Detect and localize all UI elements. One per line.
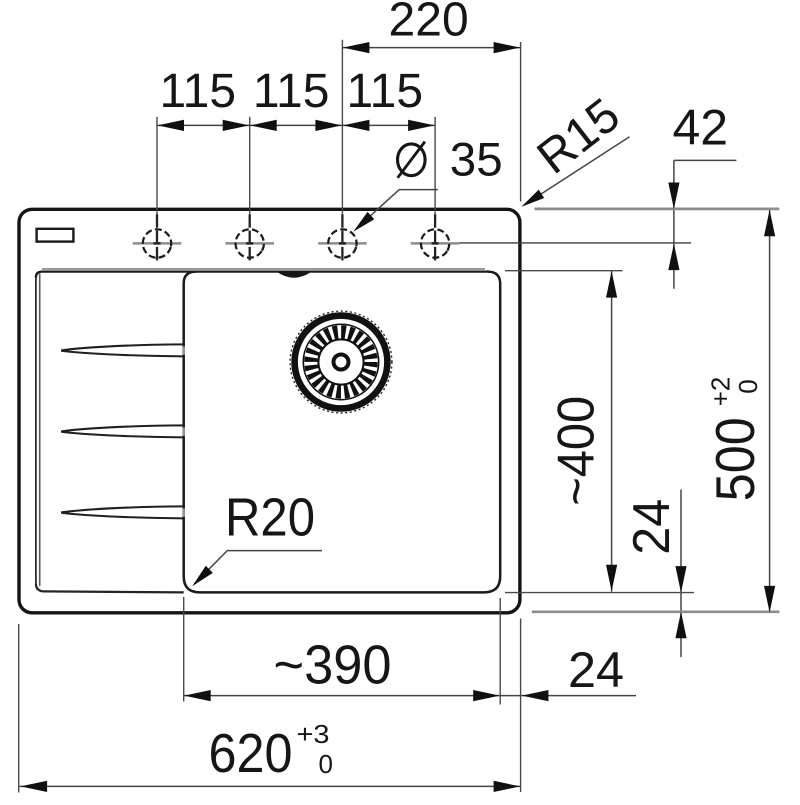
svg-text:42: 42: [672, 99, 728, 155]
svg-text:500: 500: [704, 417, 766, 501]
svg-text:+3: +3: [297, 719, 330, 749]
svg-text:620: 620: [209, 722, 293, 784]
svg-text:24: 24: [568, 642, 624, 698]
svg-text:0: 0: [733, 379, 763, 393]
svg-text:~390: ~390: [274, 634, 392, 696]
svg-text:115: 115: [347, 65, 424, 118]
svg-text:+2: +2: [705, 377, 735, 407]
svg-text:115: 115: [160, 65, 237, 118]
svg-text:0: 0: [319, 749, 333, 779]
svg-text:35: 35: [450, 133, 503, 186]
svg-text:R20: R20: [225, 488, 315, 548]
svg-text:~400: ~400: [548, 396, 606, 506]
svg-text:24: 24: [623, 499, 681, 555]
svg-text:220: 220: [389, 0, 469, 46]
svg-text:115: 115: [253, 65, 330, 118]
